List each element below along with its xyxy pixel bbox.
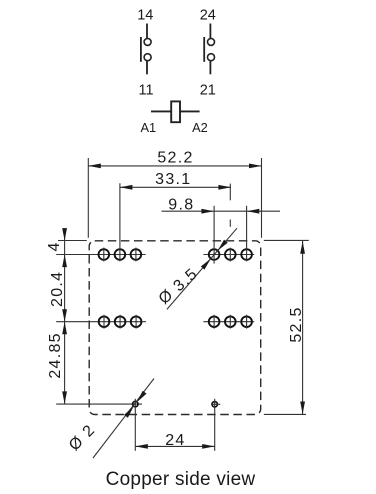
row 2 center line right	[203, 321, 254, 323]
pad hole row2 p3	[131, 315, 142, 329]
label diameter 2	[66, 421, 99, 454]
contact 24-21 movable blade	[203, 37, 205, 62]
coil wire A1-A2	[151, 110, 200, 112]
pad hole row2 p2	[115, 315, 126, 329]
dimension text 52.2	[157, 150, 193, 167]
leader line diameter 3.5	[167, 228, 237, 309]
dimension text 9.8	[168, 197, 194, 214]
wire pin 11	[146, 61, 148, 75]
dimension text 33.1	[155, 171, 191, 188]
dimension 52.5 line with arrows	[300, 241, 305, 414]
dimension text 20.4	[49, 271, 66, 307]
label pin 24	[200, 8, 216, 24]
row 3 center line left	[56, 403, 142, 405]
pad hole row2 p1	[99, 315, 110, 329]
dimension 33.1 line with arrows	[120, 185, 231, 190]
row 1 center line right	[203, 254, 254, 256]
svg-text:24.85: 24.85	[47, 332, 64, 379]
coil pad hole B (diameter 2)	[211, 399, 220, 451]
row 1 center line left	[56, 254, 146, 256]
dimension text 24.85	[47, 332, 64, 379]
svg-text:21: 21	[200, 83, 216, 99]
label pin 14	[137, 8, 153, 24]
pad hole row2 p6	[241, 315, 252, 329]
svg-text:Ø 2: Ø 2	[66, 421, 99, 454]
svg-text:A1: A1	[140, 120, 156, 135]
svg-text:52.5: 52.5	[288, 306, 305, 342]
pad hole row2 p5	[225, 315, 236, 329]
contact 24-21 terminal circle bottom	[208, 54, 215, 61]
pad hole row1 p5 with 33.1 chain extension	[225, 184, 236, 262]
svg-text:33.1: 33.1	[155, 171, 191, 188]
pad hole row1 p2 with 33.1 extension	[115, 183, 126, 261]
svg-text:14: 14	[137, 8, 153, 24]
relay outline dashed (copper side)	[89, 241, 261, 415]
coil pad hole A (diameter 2)	[133, 399, 138, 451]
caption Copper side view	[106, 469, 256, 490]
contact 14-11 terminal circle top	[144, 38, 151, 45]
leader line diameter 2	[93, 379, 154, 459]
svg-text:4: 4	[46, 242, 63, 251]
dimension 52.2 extension lines	[88, 158, 261, 238]
dimension 52.2 line with arrows	[88, 164, 261, 169]
svg-text:A2: A2	[192, 120, 208, 135]
wire pin 24	[209, 24, 211, 39]
left dimension stack vertical line	[62, 228, 67, 404]
dimension text 4	[46, 242, 63, 251]
contact 14-11 movable blade	[140, 37, 142, 62]
dimension 9.8 line with outside arrows	[162, 209, 281, 214]
dimension 24 line with arrows	[135, 444, 214, 449]
pad hole row1 p3	[131, 248, 142, 262]
svg-text:52.2: 52.2	[157, 150, 193, 167]
contact 24-21 terminal circle top	[208, 38, 215, 45]
wire pin 14	[146, 24, 148, 39]
svg-text:Ø 3.5: Ø 3.5	[156, 265, 202, 308]
wire pin 21	[209, 61, 211, 75]
label A1	[140, 120, 156, 135]
svg-text:20.4: 20.4	[49, 271, 66, 307]
label pin 21	[200, 83, 216, 99]
label diameter 3.5	[156, 265, 202, 308]
svg-text:Copper side view: Copper side view	[106, 469, 256, 490]
row 2 center line left	[56, 321, 146, 323]
label A2	[192, 120, 208, 135]
pad hole row1 p6 with 9.8 extension	[241, 206, 252, 262]
svg-text:11: 11	[138, 83, 153, 99]
dimension text 52.5	[288, 306, 305, 342]
pad hole row1 p4 with 9.8 extension	[209, 206, 220, 264]
svg-text:24: 24	[200, 8, 216, 24]
pad hole row1 p1	[99, 248, 110, 262]
label pin 11	[138, 83, 153, 99]
svg-text:24: 24	[165, 432, 185, 449]
pad hole row2 p4	[209, 315, 220, 329]
contact 14-11 terminal circle bottom	[144, 54, 151, 61]
dimension text 24	[165, 432, 185, 449]
extension line top edge for dim 4	[58, 240, 87, 242]
coil body rectangle	[171, 101, 180, 122]
svg-text:9.8: 9.8	[168, 197, 194, 214]
dimension 52.5 extension lines	[264, 240, 309, 414]
